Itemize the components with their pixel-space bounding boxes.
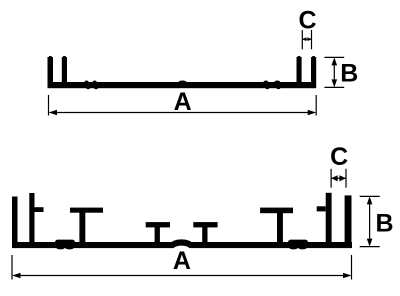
- svg-text:B: B: [340, 60, 358, 88]
- svg-text:B: B: [375, 210, 393, 238]
- svg-text:A: A: [173, 247, 191, 275]
- svg-text:C: C: [298, 7, 316, 35]
- svg-text:A: A: [174, 88, 192, 116]
- svg-text:C: C: [330, 143, 348, 171]
